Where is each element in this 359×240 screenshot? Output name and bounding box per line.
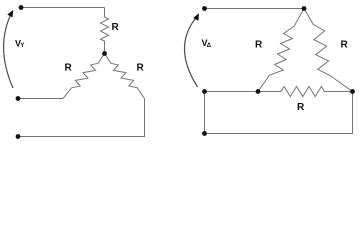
svg-text:R: R xyxy=(137,63,145,74)
resistor R (left leg, Y network) xyxy=(63,54,105,99)
Vy source arrow arc xyxy=(4,13,13,88)
node terminal A (Y) xyxy=(16,96,21,101)
svg-text:Δ: Δ xyxy=(207,43,212,49)
node apex (delta) xyxy=(302,6,307,11)
resistor R (left leg, delta) xyxy=(258,9,304,92)
node mid-left (delta) xyxy=(202,89,207,94)
svg-text:R: R xyxy=(341,40,349,51)
node terminal B (Y) xyxy=(16,134,21,139)
wire right+bottom (Y network) xyxy=(18,99,145,137)
svg-text:R: R xyxy=(297,102,305,113)
svg-text:Y: Y xyxy=(20,43,24,49)
Vy arrowhead xyxy=(7,10,13,18)
svg-text:R: R xyxy=(112,22,120,33)
node center (Y) xyxy=(102,51,107,56)
wire top left (Y network) xyxy=(21,7,105,9)
wire lower-left (Y network) xyxy=(18,98,63,100)
Vdelta arrowhead xyxy=(193,13,199,21)
wire mid-left (delta) xyxy=(205,91,259,93)
node top-left (delta) xyxy=(202,6,207,11)
resistor R (bottom, delta) xyxy=(258,87,353,97)
resistor R (right leg, delta) xyxy=(304,9,353,92)
node top (Y) xyxy=(19,5,24,10)
wire top (delta network) xyxy=(205,8,305,10)
node vertex bottom-left (delta) xyxy=(256,89,261,94)
svg-text:R: R xyxy=(255,40,263,51)
svg-text:R: R xyxy=(65,63,73,74)
node bottom-left corner (delta) xyxy=(202,131,207,136)
wire left vertical + bottom + right vertical (delta) xyxy=(205,92,353,134)
resistor R (right leg, Y network) xyxy=(105,54,145,99)
node vertex bottom-right (delta) xyxy=(350,89,355,94)
resistor R (top vertical, Y network) xyxy=(101,8,109,52)
wire center stub xyxy=(104,51,106,53)
Vdelta source arrow arc xyxy=(185,16,198,87)
